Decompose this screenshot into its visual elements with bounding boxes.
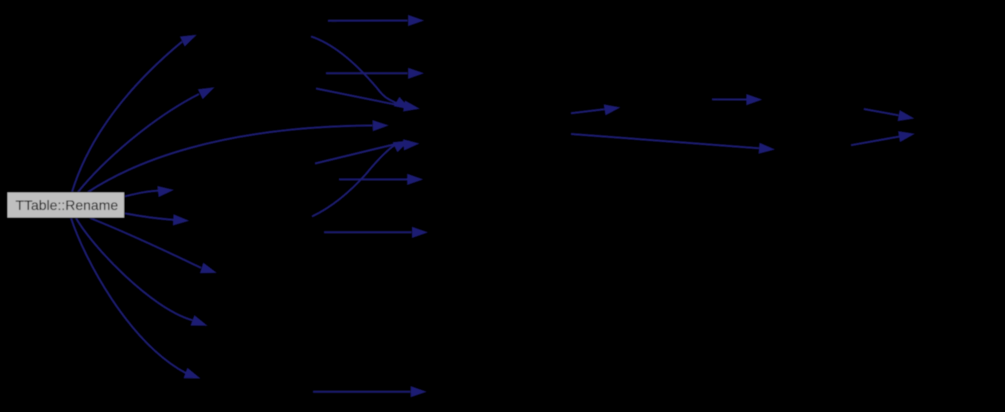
node TTable::Rename [7,192,125,218]
edge root->n3 [125,186,174,197]
edge c3->c4b long [571,134,775,154]
edge n2b->c3b [326,68,424,79]
edge root->n9 long [88,120,389,192]
edge c5->c6a [864,109,915,121]
edge n4b->c3f [324,227,428,238]
edge n3b->c3e [339,174,423,185]
edge root->n5 [90,218,217,273]
edge n4->c3d s-curve [312,141,410,217]
edge n1->c3c s-curve [311,36,411,109]
edge c4b->c6b [851,131,915,145]
edge n1b->c3a [328,15,424,26]
edge root->n4 [125,213,190,225]
edge n2->c3c [316,89,420,112]
edge c3->c4a [571,104,621,115]
edge c4a->c5 [712,94,762,105]
edge n7b->c3g [313,386,427,397]
edge root->n1 [72,35,197,192]
edge root->n2 [78,87,215,192]
edge n2c->c3d [315,139,420,163]
edge root->n7 [71,218,201,379]
svg-text:TTable::Rename: TTable::Rename [15,197,118,213]
edge root->n6 [76,218,208,326]
